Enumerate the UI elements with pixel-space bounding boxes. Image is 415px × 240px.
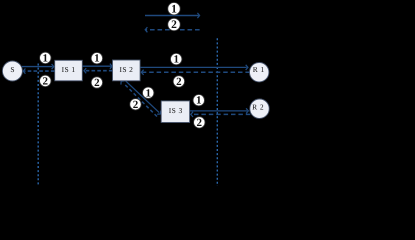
label circle 1 on IS3-R2 xyxy=(193,95,204,107)
svg-text:1: 1 xyxy=(173,54,179,66)
svg-text:IS 1: IS 1 xyxy=(62,65,76,74)
label circle 2 on IS3-R2 xyxy=(194,117,205,129)
wire IS3 to R2 solid (1) xyxy=(190,108,249,113)
svg-text:2: 2 xyxy=(176,76,182,88)
wire IS2 to R1 solid (1) xyxy=(140,65,248,70)
label circle 1 on IS2-IS3 xyxy=(143,87,154,99)
svg-text:1: 1 xyxy=(171,3,177,15)
svg-text:1: 1 xyxy=(94,53,100,65)
label circle 2 on IS1-IS2 xyxy=(91,77,102,89)
wire R2 to IS3 dashed (2) xyxy=(191,112,251,117)
label circle 1 on IS2-R1 xyxy=(171,53,182,65)
node R 1 xyxy=(250,62,269,81)
node IS 3 xyxy=(161,101,189,123)
label circle 1 on IS1-IS2 xyxy=(91,53,102,65)
node IS 1 xyxy=(55,60,83,81)
node IS 2 xyxy=(113,60,141,81)
dotted vertical boundary line left xyxy=(37,64,39,187)
wire IS1 to IS2 solid (1) xyxy=(82,64,112,69)
label circle 2 on IS2-R1 xyxy=(173,76,184,88)
svg-text:2: 2 xyxy=(43,75,49,87)
svg-text:R 2: R 2 xyxy=(252,103,264,112)
svg-text:2: 2 xyxy=(197,117,203,129)
label circle 2 on S-IS1 xyxy=(40,75,51,87)
dotted vertical boundary line right xyxy=(216,38,218,186)
svg-text:2: 2 xyxy=(133,99,139,111)
label circle 1 on S-IS1 xyxy=(40,52,51,64)
svg-text:S: S xyxy=(10,65,14,74)
legend dashed arrow (reply, label 2) xyxy=(145,27,199,32)
svg-text:1: 1 xyxy=(196,95,202,107)
node R 2 xyxy=(250,99,269,118)
legend circle 2 xyxy=(168,18,180,31)
svg-text:1: 1 xyxy=(43,52,49,64)
svg-text:IS 3: IS 3 xyxy=(169,106,183,115)
svg-text:IS 2: IS 2 xyxy=(119,65,133,74)
svg-text:2: 2 xyxy=(171,19,177,31)
wire R1 to IS2 dashed (2) xyxy=(141,70,250,75)
wire S to IS1 solid (1) xyxy=(22,64,54,69)
wire IS2 to IS1 dashed (2) xyxy=(84,68,113,73)
wire IS3 to IS2 diagonal dashed (2) xyxy=(121,81,157,117)
wire IS2 to IS3 diagonal solid (1) xyxy=(125,81,161,115)
svg-text:R 1: R 1 xyxy=(253,65,265,74)
svg-text:2: 2 xyxy=(94,77,100,89)
node S (source) xyxy=(2,61,22,81)
label circle 2 on IS2-IS3 xyxy=(130,99,141,111)
svg-text:1: 1 xyxy=(145,87,151,99)
legend circle 1 xyxy=(168,3,180,16)
legend solid arrow (request, label 1) xyxy=(145,13,200,18)
wire IS1 to S dashed (2) xyxy=(23,69,54,74)
